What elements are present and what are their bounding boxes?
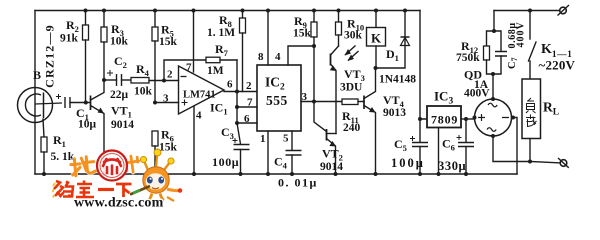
- wire IC2 pins 2-7-6 tie: [235, 92, 257, 126]
- load character fu: [526, 98, 536, 113]
- terminal top right: [558, 5, 570, 16]
- wire left vertical: [34, 11, 36, 175]
- switch K1-1: [528, 9, 576, 80]
- phototransistor VT3 3DU: [330, 46, 365, 134]
- node R9 pin3: [312, 100, 316, 104]
- junction dots on ground rail: [42, 172, 468, 176]
- svg-text:CRZ12—9: CRZ12—9: [43, 24, 57, 88]
- svg-text:750k: 750k: [456, 52, 480, 64]
- transistor VT4 9013: [363, 68, 407, 174]
- watermark zhao xin pian text: [70, 156, 95, 176]
- svg-text:8: 8: [258, 51, 264, 63]
- microphone B CRZ12-9: [18, 24, 63, 122]
- svg-text:5: 5: [283, 133, 289, 145]
- node op-amp noninverting input: [153, 101, 157, 105]
- resistor R2: [60, 11, 89, 103]
- svg-text:K: K: [371, 31, 382, 46]
- node IC3 output: [418, 117, 422, 121]
- diode D1 1N4148: [376, 11, 416, 86]
- wire top supply rail: [35, 10, 420, 12]
- watermark weiku yixia red text: [53, 181, 132, 198]
- IC3 7809 regulator: [427, 89, 475, 128]
- wire load bottom: [528, 139, 560, 164]
- node VT1 base: [84, 101, 88, 105]
- svg-text:15k: 15k: [159, 36, 178, 48]
- wire op-amp pin4 to ground: [193, 106, 195, 174]
- op-amp U1 LM741: [163, 62, 233, 122]
- svg-text:LM741: LM741: [183, 90, 216, 101]
- resistor R7: [206, 42, 237, 77]
- svg-text:5. 1k: 5. 1k: [51, 151, 75, 163]
- svg-text:2: 2: [246, 80, 252, 92]
- wire IC3 ground lead: [437, 128, 441, 177]
- wire pin2 to op-amp: [164, 80, 179, 82]
- svg-text:15k: 15k: [293, 28, 312, 40]
- svg-text:~220V: ~220V: [539, 58, 576, 73]
- svg-text:7: 7: [186, 62, 192, 74]
- svg-text:15k: 15k: [159, 142, 178, 154]
- load character zai: [526, 115, 537, 127]
- feedback wire pin2 up: [164, 60, 206, 81]
- bridge rectifier QD: [464, 68, 512, 137]
- wire op-amp output to IC2 pin2: [224, 91, 257, 93]
- wire mains live top: [494, 11, 560, 32]
- wire op-amp pin7 to rail: [193, 11, 195, 73]
- feedback wire down to output: [236, 60, 238, 92]
- wire bridge bottom to neutral: [491, 134, 530, 162]
- resistor R11: [342, 99, 363, 134]
- svg-text:9014: 9014: [111, 119, 134, 131]
- capacitor C2 22u: [104, 54, 131, 101]
- svg-text:B: B: [33, 68, 41, 82]
- wire bottom ground rail: [35, 173, 517, 175]
- svg-text:6: 6: [227, 79, 233, 91]
- capacitor C4 0.01u: [274, 131, 318, 190]
- svg-text:1M: 1M: [207, 65, 224, 77]
- svg-text:www.dzsc.com: www.dzsc.com: [74, 196, 164, 211]
- svg-text:1N4148: 1N4148: [379, 74, 416, 86]
- capacitor C5 100u: [391, 119, 428, 174]
- svg-text:1. 1M: 1. 1M: [207, 27, 235, 39]
- capacitor C6 330u: [438, 117, 474, 174]
- svg-text:0. 01μ: 0. 01μ: [278, 176, 318, 190]
- watermark logo circle: [97, 151, 127, 181]
- svg-text:4: 4: [196, 110, 202, 122]
- wire pin3 to op-amp: [155, 102, 179, 104]
- wire rail corner to IC3: [420, 11, 427, 120]
- node op-amp inverting input: [162, 79, 166, 83]
- svg-text:100μ: 100μ: [391, 156, 425, 170]
- node VT4 collector: [374, 66, 378, 70]
- transistor VT2 9014: [314, 102, 343, 175]
- wire bridge plus to IC3: [473, 116, 477, 120]
- wire bridge top to snubber: [491, 72, 495, 101]
- svg-text:3DU: 3DU: [340, 82, 363, 94]
- watermark www.dzsc.com: [74, 196, 164, 211]
- svg-text:400V: 400V: [516, 21, 527, 47]
- junction dots on top rail: [84, 9, 408, 13]
- resistor R10: [336, 11, 365, 47]
- node output: [235, 90, 239, 94]
- svg-text:555: 555: [266, 93, 288, 108]
- svg-text:2: 2: [167, 69, 173, 81]
- IC2 555 timer: [244, 51, 308, 145]
- resistor R1: [41, 133, 75, 174]
- wire mic to R1: [43, 119, 44, 137]
- load RL box: [522, 79, 559, 139]
- resistor R9: [293, 11, 317, 102]
- svg-text:9014: 9014: [320, 161, 343, 173]
- capacitor C7 0.68u: [492, 21, 527, 74]
- wire IC2 pin4 to R9: [288, 46, 314, 65]
- node R3/C2/VT1 collector: [102, 78, 106, 82]
- resistor R5: [152, 11, 178, 103]
- resistor R12: [456, 31, 494, 74]
- relay K: [367, 11, 386, 69]
- svg-text:22μ: 22μ: [110, 89, 129, 101]
- wire bridge minus to ground: [511, 116, 517, 175]
- svg-text:400V: 400V: [464, 88, 490, 100]
- watermark mascot: [130, 149, 182, 202]
- svg-text:100μ: 100μ: [212, 155, 239, 169]
- capacitor C3 100u: [212, 123, 250, 174]
- resistor R8: [207, 11, 246, 92]
- svg-text:1: 1: [260, 133, 266, 145]
- svg-text:10μ: 10μ: [78, 119, 97, 131]
- resistor R3: [101, 11, 129, 81]
- wire IC2 pin8 to rail: [267, 11, 269, 66]
- svg-text:9013: 9013: [383, 107, 406, 119]
- svg-text:3: 3: [163, 93, 169, 105]
- svg-text:7809: 7809: [431, 113, 458, 127]
- terminal bottom right: [558, 158, 569, 168]
- svg-text:10k: 10k: [134, 86, 153, 98]
- svg-text:330μ: 330μ: [438, 159, 466, 173]
- wire IC2 pin1 to ground: [267, 131, 269, 174]
- svg-text:91k: 91k: [60, 33, 79, 45]
- svg-text:240: 240: [343, 122, 361, 134]
- svg-text:10k: 10k: [110, 36, 129, 48]
- svg-text:30k: 30k: [344, 30, 363, 42]
- wire IC2 pin3 to R11: [301, 101, 342, 103]
- node R9 pin4: [312, 44, 316, 48]
- resistor R4: [131, 62, 164, 98]
- resistor R6: [152, 128, 178, 175]
- svg-text:4: 4: [275, 51, 281, 63]
- capacitor C1 10u: [56, 94, 97, 131]
- transistor VT1 9014: [86, 80, 134, 174]
